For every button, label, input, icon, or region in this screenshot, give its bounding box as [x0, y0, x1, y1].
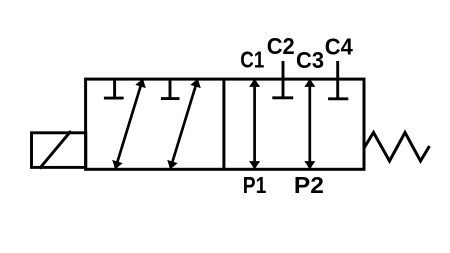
svg-text:C1: C1 — [240, 47, 264, 73]
blocked port C2 bar — [272, 96, 293, 99]
flow arrow C3-P2 shaft (vertical) — [308, 84, 311, 164]
solenoid diagonal stroke — [40, 131, 72, 169]
flow arrow 1 bottom head — [112, 160, 123, 170]
valve body outline — [86, 79, 364, 169]
flow arrow 2 shaft (diagonal, left cell) — [172, 84, 196, 164]
solenoid actuator box — [32, 133, 86, 168]
flow arrow C1-P1 shaft (vertical) — [253, 84, 256, 164]
flow arrow C3-P2 top head — [304, 78, 315, 87]
blocked port T2 stem — [169, 79, 172, 99]
flow arrow 1 top head — [135, 78, 146, 88]
flow arrow 2 top head — [190, 78, 201, 88]
svg-text:C2: C2 — [267, 33, 295, 59]
svg-text:C4: C4 — [325, 33, 353, 59]
position divider line — [222, 79, 225, 169]
blocked port C2 stem — [282, 61, 285, 98]
blocked port C4 bar — [328, 97, 348, 100]
svg-text:P2: P2 — [294, 172, 324, 198]
svg-text:C3: C3 — [296, 47, 324, 73]
blocked port T1 bar — [104, 97, 124, 100]
flow arrow C1-P1 top head — [249, 78, 260, 87]
blocked port C4 stem — [336, 61, 339, 99]
flow arrow 2 bottom head — [167, 160, 178, 170]
svg-text:P1: P1 — [243, 172, 267, 198]
blocked port T2 bar — [161, 97, 180, 100]
spring return — [364, 133, 430, 162]
flow arrow 1 shaft (diagonal, left cell) — [117, 84, 141, 164]
flow arrow C3-P2 bottom head — [304, 161, 315, 170]
flow arrow C1-P1 bottom head — [249, 161, 260, 170]
blocked port T1 stem — [113, 79, 116, 98]
